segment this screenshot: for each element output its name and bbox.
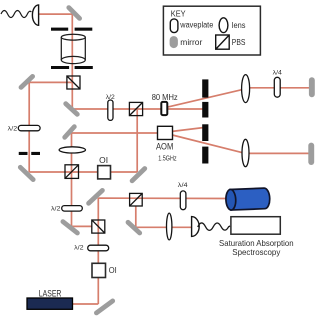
waveplate W3 λ/2 (62, 206, 83, 212)
wire top column M1 to M3 (71, 14, 73, 110)
key lens symbol (219, 18, 228, 33)
mirror MR2 right lower (308, 143, 314, 165)
svg-text:80 MHz: 80 MHz (152, 93, 178, 102)
wire laser to M11 (73, 303, 99, 305)
svg-text:λ/2: λ/2 (51, 206, 61, 213)
wire column M4 down through PBS2 waveplate to M9 (71, 133, 73, 227)
wire lens L2 to right mirror MR1 (246, 87, 311, 89)
svg-text:λ/2: λ/2 (106, 94, 115, 101)
mirror M8 (89, 190, 103, 203)
svg-text:OI: OI (109, 266, 117, 275)
80 MHz AOM element (161, 102, 167, 115)
mirror MR1 right top (309, 77, 315, 97)
svg-text:waveplate: waveplate (179, 21, 213, 30)
svg-text:λ/2: λ/2 (8, 125, 18, 132)
wire laser column M11 up through OI waveplate PBS5 to M8 (97, 198, 99, 304)
fiber F1 squiggle top left (1, 11, 31, 18)
mirror M7 (128, 222, 140, 233)
PBS U2 (65, 165, 79, 179)
mirror M11 (96, 301, 112, 313)
wire AOM diffracted beam to lens L3 (172, 135, 245, 153)
lens L4 (167, 213, 172, 240)
svg-text:LASER: LASER (39, 288, 62, 299)
lens L2 (242, 75, 250, 103)
wire M9 to PBS5 (72, 225, 93, 227)
horn coupler H2 (192, 217, 200, 237)
wire top beam horn to M1 (38, 13, 72, 15)
aperture second pair (51, 66, 93, 69)
wire lens L3 to right mirror MR2 (246, 152, 312, 154)
svg-text:Spectroscopy: Spectroscopy (232, 247, 281, 257)
wire M6 up to PBS3 (136, 109, 138, 172)
wire M7 to horn H2 through lens L4 (136, 226, 192, 228)
svg-text:1.5GHz: 1.5GHz (158, 153, 177, 162)
mirror M4 (65, 127, 75, 138)
waveplate W6 λ/2 laser column (88, 245, 109, 251)
beam block bars lower slit (202, 124, 208, 163)
svg-text:PBS: PBS (232, 38, 246, 47)
svg-text:λ/2: λ/2 (74, 245, 84, 252)
wire M3 to slit through waveplate PBS3 80MHz (72, 108, 203, 110)
key legend box (163, 6, 260, 55)
PBS U1 (67, 76, 80, 89)
telescope tube cylinder (61, 34, 85, 63)
svg-text:AOM: AOM (156, 142, 173, 152)
wire PBS4 down to M7 (135, 206, 137, 228)
wire M5 to M6 through PBS2 and OI (29, 171, 137, 173)
svg-text:OI: OI (99, 156, 108, 165)
mirror M3 (66, 104, 78, 115)
wire M4 to AOM (72, 132, 159, 134)
mirror M1 (69, 8, 80, 19)
svg-text:KEY: KEY (171, 9, 187, 18)
PBS U5 (92, 220, 105, 233)
spectroscopy box (231, 217, 280, 235)
AOM box (158, 126, 173, 139)
wire AOM zero order to block (172, 128, 203, 132)
OI box 1 (98, 166, 111, 179)
key waveplate symbol (170, 19, 178, 33)
wires: laser beam paths (29, 14, 311, 304)
beam block bars upper slit (202, 79, 208, 117)
lens L3 (242, 139, 249, 166)
wire left column M2 to M5 (28, 82, 30, 172)
mirror M2 (21, 76, 33, 87)
wire diffracted beam up from 80MHz to lens L2 (167, 89, 246, 107)
mirror M9 (63, 222, 78, 233)
mirror M5 (20, 167, 33, 179)
aperture top pair (51, 28, 92, 31)
svg-text:mirror: mirror (180, 38, 202, 47)
waveplate W4 λ/4 (180, 191, 186, 210)
wire PBS1 to M2 (29, 81, 73, 83)
waveplate W2 λ/2 mid (108, 100, 113, 120)
mirror M6 (132, 169, 145, 181)
horn coupler H1 top left (32, 5, 38, 25)
laser box (27, 298, 73, 309)
wire M8 to cell through PBS4 and quarter waveplate (98, 197, 226, 199)
svg-text:λ/4: λ/4 (273, 70, 283, 77)
rubidium cell blue cylinder (226, 188, 271, 210)
key PBS symbol (216, 35, 230, 49)
PBS U4 (130, 193, 143, 206)
slit dashes left column (19, 152, 40, 155)
key mirror symbol (170, 36, 178, 48)
fiber F2 squiggle (198, 223, 230, 230)
svg-text:lens: lens (232, 21, 246, 30)
svg-text:λ/4: λ/4 (178, 182, 188, 189)
waveplate W1 λ/2 left column (18, 125, 40, 130)
OI box 2 (92, 263, 106, 277)
PBS U3 (129, 102, 142, 115)
waveplate W5 λ/4 upper right (274, 77, 280, 97)
lens L1 (59, 147, 85, 153)
